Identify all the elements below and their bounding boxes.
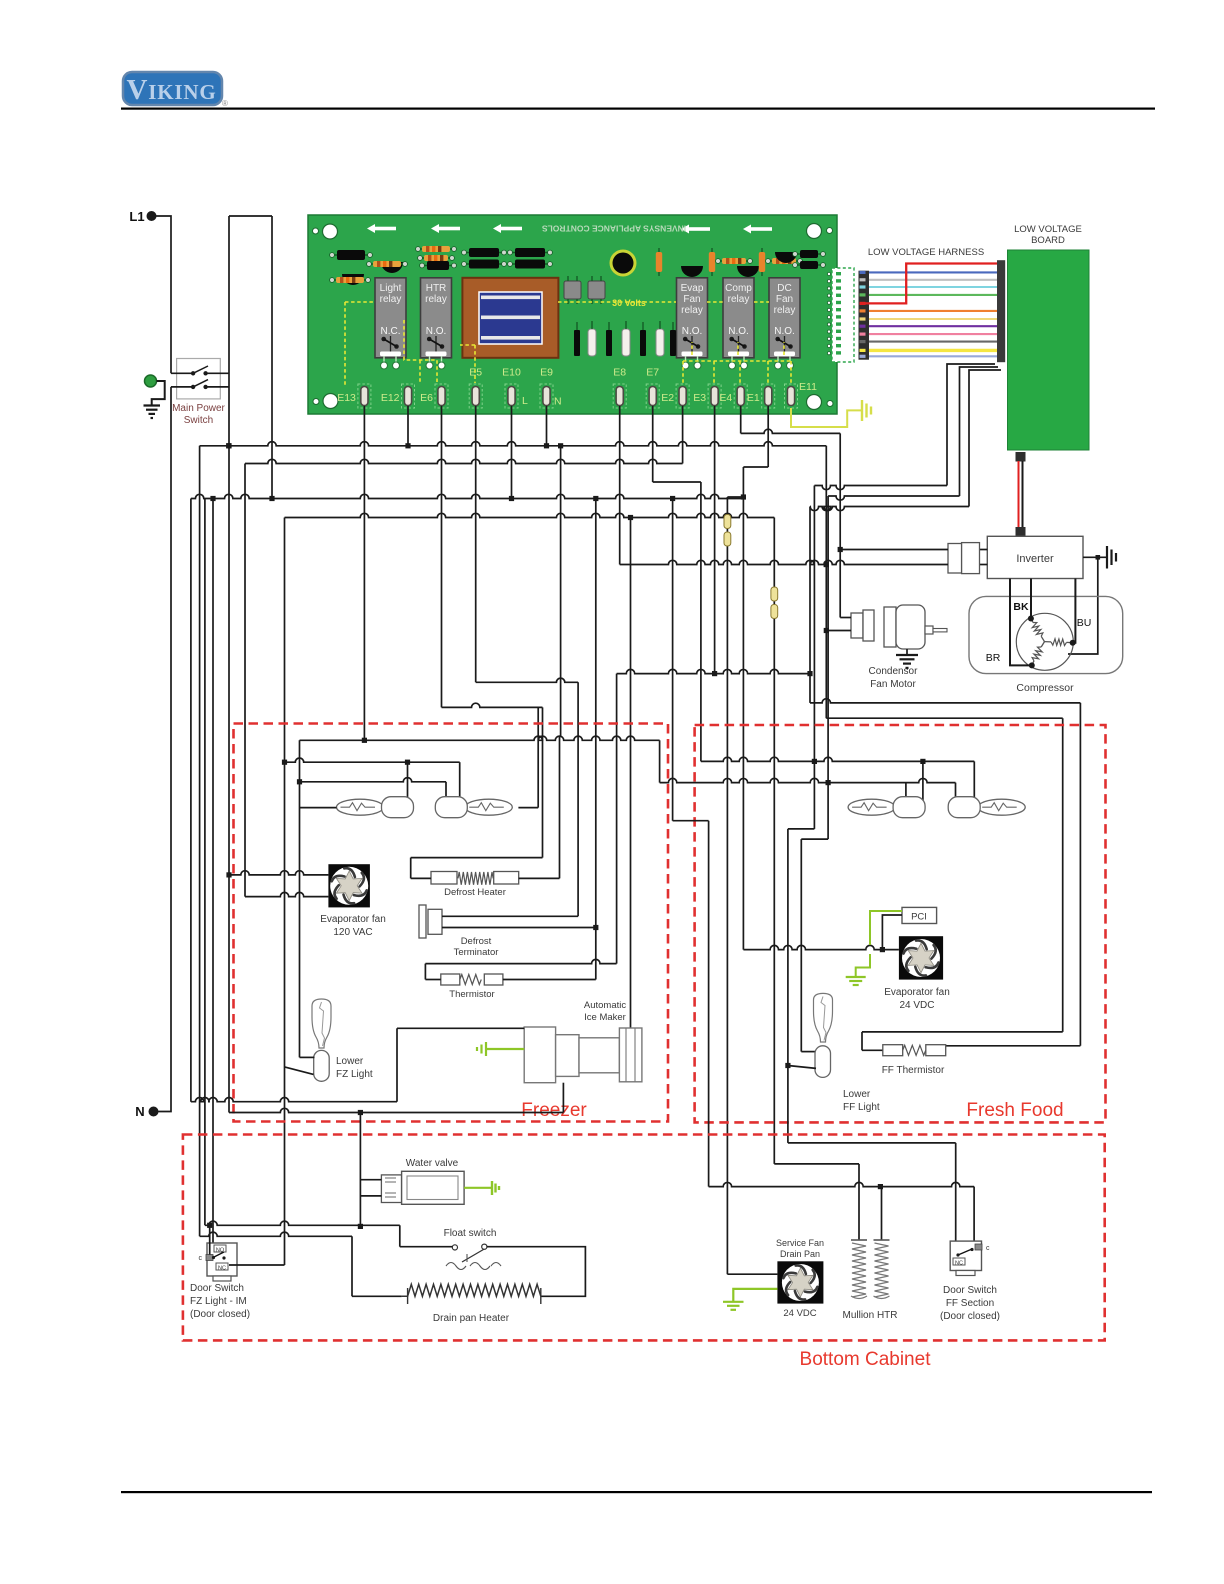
lower FF light diagonal [788, 1066, 816, 1069]
svg-text:BR: BR [986, 652, 1001, 664]
thermistor FZ [441, 974, 503, 985]
PCB capacitor pair 2 [508, 248, 553, 269]
wire fz bulb2 tip drop [537, 707, 539, 807]
svg-text:Lower: Lower [843, 1089, 871, 1100]
svg-text:Door Switch: Door Switch [943, 1285, 997, 1296]
FF bulb1 stubs [906, 761, 923, 800]
label evaporator fan FZ [320, 914, 386, 938]
svg-text:NC: NC [218, 1266, 226, 1272]
label thermistor FZ [449, 989, 494, 1000]
label door switch FZ [190, 1283, 250, 1320]
PCI board [902, 907, 937, 923]
svg-text:Float switch: Float switch [444, 1228, 497, 1239]
PCB edge connector J1 [827, 268, 854, 362]
wire E2 drop [682, 413, 684, 464]
wire mullion right feed [881, 1187, 883, 1240]
svg-text:E1: E1 [747, 392, 760, 404]
wire V229 switched [226, 216, 231, 501]
wire E5 drop [475, 413, 477, 682]
svg-text:®: ® [222, 99, 228, 108]
wire E12 drop [407, 413, 409, 446]
svg-text:E4: E4 [719, 392, 732, 404]
wire3 door switch FF feed [709, 1182, 975, 1248]
harness red wire [862, 264, 997, 304]
freezer left vertical [297, 740, 302, 1057]
svg-text:24 VDC: 24 VDC [783, 1308, 816, 1319]
freezer top wire [300, 736, 660, 782]
svg-text:c: c [986, 1245, 990, 1252]
relay K1 Light [375, 278, 406, 369]
wire E1 jog [743, 413, 768, 950]
bus A branch N2 [560, 446, 562, 736]
label BU [1077, 617, 1092, 629]
low voltage board [1008, 250, 1090, 450]
wire row 1 [205, 1221, 400, 1247]
inverter ground [1083, 546, 1116, 569]
inverter connector P2 [948, 543, 987, 574]
relay K4 Comp [723, 278, 754, 369]
wire mullion left feed [774, 1164, 859, 1240]
svg-text:Inverter: Inverter [1016, 553, 1054, 565]
inverter U2 [987, 536, 1083, 578]
svg-text:LOW VOLTAGE HARNESS: LOW VOLTAGE HARNESS [868, 247, 984, 258]
wire row 2 [200, 1232, 402, 1296]
svg-text:LOW VOLTAGE: LOW VOLTAGE [1014, 224, 1082, 235]
svg-text:N.O.: N.O. [682, 326, 703, 337]
label ice maker [584, 1000, 626, 1023]
defrost terminator [419, 905, 598, 938]
svg-text:Comp: Comp [725, 283, 752, 294]
LV wire 1 [814, 364, 995, 761]
wire E10 drop [511, 413, 513, 499]
label lower FZ light [336, 1056, 373, 1080]
wire BK [1030, 579, 1032, 619]
bus D left drop [284, 518, 286, 1266]
svg-text:HTR: HTR [426, 283, 447, 294]
wire E8 inverter lower feed [620, 413, 948, 567]
svg-text:N.O.: N.O. [728, 326, 749, 337]
svg-text:Evap: Evap [681, 283, 704, 294]
svg-text:E10: E10 [502, 367, 521, 379]
svg-text:Light: Light [380, 283, 402, 294]
svg-text:Freezer: Freezer [521, 1100, 587, 1121]
wire fuse jog [727, 496, 743, 498]
svg-text:Bottom Cabinet: Bottom Cabinet [800, 1349, 932, 1370]
svg-text:relay: relay [728, 294, 750, 305]
ice maker ground green [477, 1042, 524, 1056]
fuse pair F2 [771, 518, 778, 1164]
svg-text:(Door closed): (Door closed) [940, 1311, 1000, 1322]
label Condensor Fan Motor [869, 666, 919, 690]
bus B [245, 459, 683, 463]
label 30 Volts [612, 298, 646, 308]
svg-text:FF Thermistor: FF Thermistor [882, 1065, 945, 1076]
freezer feed 762 [282, 758, 460, 800]
svg-text:N.O.: N.O. [774, 326, 795, 337]
harness connector strip right [997, 260, 1005, 362]
transformer T1 [462, 278, 558, 358]
svg-text:L1: L1 [129, 209, 144, 224]
label Freezer [521, 1100, 587, 1121]
bus C left drop [190, 499, 192, 1102]
power indicator ground [144, 375, 165, 418]
PCB main control board [308, 215, 837, 414]
FF thermistor [883, 1045, 946, 1056]
float switch [446, 1244, 501, 1269]
svg-text:Drain pan Heater: Drain pan Heater [433, 1313, 510, 1324]
wire inverter case to compressor [1068, 555, 1100, 654]
svg-text:(Door closed): (Door closed) [190, 1309, 250, 1320]
wire V204 [204, 499, 206, 1226]
label FF thermistor [882, 1065, 945, 1076]
freezer dashed box [234, 724, 669, 1122]
svg-text:E9: E9 [540, 367, 553, 379]
wire V595 drop [595, 499, 597, 980]
evaporator fan FF [899, 936, 943, 979]
PCB silk text INVENSYS APPLIANCE CONTROLS [542, 224, 687, 234]
PCB yellow trace bus [345, 302, 791, 385]
svg-text:Mullion HTR: Mullion HTR [842, 1310, 897, 1321]
freezer light bulb pair [337, 797, 513, 818]
PCI link [882, 915, 902, 950]
lower FZ light leads [285, 1057, 315, 1074]
Viking logo [123, 72, 228, 108]
automatic ice maker [524, 1027, 642, 1083]
FF green ground wire [846, 911, 902, 985]
water valve [381, 1171, 464, 1204]
wire N to switch [158, 387, 171, 1112]
label Fresh Food [966, 1100, 1063, 1121]
compressor case [969, 596, 1123, 673]
wire FF therm right feed [946, 703, 1081, 1046]
wire BU [1073, 579, 1076, 643]
LV board ground yellow [791, 400, 871, 427]
svg-text:FF Light: FF Light [843, 1102, 880, 1113]
svg-text:Lower: Lower [336, 1056, 364, 1067]
svg-text:E6: E6 [420, 392, 433, 404]
terminal labels L and N [522, 395, 562, 408]
svg-text:Switch: Switch [184, 415, 213, 426]
condenser fan ground [896, 649, 918, 668]
main power switch S1 [171, 359, 229, 427]
fresh food dashed box [695, 725, 1106, 1122]
water valve ground [464, 1181, 499, 1195]
svg-text:Service Fan: Service Fan [776, 1238, 824, 1248]
service fan ground [723, 1289, 777, 1310]
wire inverter upper feed [840, 549, 948, 551]
bus D [285, 513, 775, 520]
LV wire 2 [828, 367, 998, 783]
LV wire 3 [810, 370, 1001, 511]
wire H718 [826, 717, 1062, 719]
PCB small ic pair [564, 276, 605, 304]
svg-text:E2: E2 [661, 392, 674, 404]
wire E7 jog [653, 413, 701, 761]
service fan drain pan [777, 1261, 823, 1303]
svg-text:Condensor: Condensor [869, 666, 919, 677]
condenser fan motor M1 [851, 605, 947, 649]
svg-text:Evaporator fan: Evaporator fan [884, 987, 950, 998]
svg-text:INVENSYS APPLIANCE CONTROLS: INVENSYS APPLIANCE CONTROLS [542, 224, 687, 234]
svg-text:PCI: PCI [911, 912, 927, 923]
water valve feeds [358, 1110, 382, 1229]
wire defrost left drop [542, 707, 544, 857]
bus C switched [191, 494, 746, 501]
label defrost terminator [454, 936, 499, 958]
label 24 VDC [783, 1308, 816, 1319]
relay K5 DC Fan [769, 278, 800, 369]
svg-text:relay: relay [681, 305, 703, 316]
svg-text:Fan Motor: Fan Motor [870, 679, 916, 690]
svg-text:N.C.: N.C. [381, 326, 401, 337]
inverter input connector [1016, 527, 1026, 537]
wire V272 [269, 216, 274, 501]
header rule [121, 108, 1155, 110]
svg-text:N.O.: N.O. [426, 326, 447, 337]
door switch FF [950, 1241, 990, 1275]
svg-text:N: N [135, 1104, 144, 1119]
wire BR [1010, 579, 1032, 666]
svg-text:N: N [554, 396, 562, 408]
node N [135, 1104, 158, 1119]
LV board output connector [1016, 452, 1026, 462]
harness connector strip left [859, 271, 870, 360]
FF light bulb pair [848, 797, 1025, 818]
freezer bottom wire 2 [229, 1108, 563, 1112]
svg-text:Main Power: Main Power [172, 403, 225, 414]
svg-text:Ice Maker: Ice Maker [584, 1012, 626, 1023]
low voltage harness ribbon [860, 271, 998, 358]
evaporator fan FZ [328, 864, 370, 907]
svg-text:BOARD: BOARD [1031, 235, 1065, 246]
label LOW VOLTAGE HARNESS [868, 247, 984, 258]
wire E6 drop [441, 413, 443, 707]
wire E5 corner [476, 678, 578, 682]
FF feed 782 [660, 778, 956, 800]
svg-text:30 Volts: 30 Volts [612, 298, 646, 308]
wire terminator drop [577, 682, 579, 916]
wire H702 [810, 699, 1080, 703]
svg-text:E5: E5 [469, 367, 482, 379]
svg-text:E3: E3 [693, 392, 706, 404]
svg-text:Evaporator fan: Evaporator fan [320, 914, 386, 925]
FF feed 761 [701, 757, 974, 800]
svg-text:Fan: Fan [776, 294, 793, 305]
label Compressor [1016, 682, 1074, 694]
defrost heater R-DH [431, 872, 519, 885]
wire icemaker drop [630, 518, 632, 1029]
wire defrost right drop [560, 736, 561, 878]
wire H673 [617, 669, 810, 673]
bus A right drop [824, 446, 829, 718]
bus A neutral [200, 442, 827, 449]
door switch FZ verticals [210, 1225, 213, 1254]
svg-text:120 VAC: 120 VAC [333, 927, 372, 938]
wire condenser lower pin [826, 630, 851, 632]
svg-text:E8: E8 [613, 367, 626, 379]
label mullion HTR [842, 1310, 897, 1321]
lower FF light [814, 993, 833, 1077]
footer rule [121, 1491, 1152, 1493]
label door switch FF [940, 1285, 1000, 1322]
svg-text:Automatic: Automatic [584, 1000, 626, 1011]
svg-text:NC: NC [955, 1261, 963, 1267]
svg-text:Defrost: Defrost [461, 936, 492, 947]
PCB capacitor pair 1 [462, 248, 507, 269]
terminal stubs [364, 406, 768, 413]
float switch right wire [487, 1247, 586, 1297]
svg-text:Compressor: Compressor [1016, 682, 1074, 694]
PCB silk arrows [367, 224, 772, 234]
PCB component cluster 2 [416, 246, 457, 270]
wire condenser wrap to FF therm left [862, 718, 1063, 1050]
svg-text:Terminator: Terminator [454, 947, 499, 958]
svg-text:c: c [199, 1255, 203, 1262]
wire V213 [212, 499, 214, 1248]
svg-text:L: L [522, 395, 528, 407]
PCB corner screws [313, 224, 834, 410]
svg-text:E11: E11 [799, 381, 817, 393]
bottom cabinet dashed box [183, 1135, 1105, 1341]
svg-text:E12: E12 [381, 392, 400, 404]
svg-text:Fan: Fan [683, 294, 700, 305]
wire thermistor left drop [616, 674, 618, 964]
svg-text:Fresh Food: Fresh Food [966, 1100, 1063, 1121]
svg-text:relay: relay [380, 294, 402, 305]
wire V672 to door switch [673, 499, 709, 1187]
wire L1 to switch [156, 216, 171, 373]
PCB terminals E13 E12 E6 E5 E10 E9 E8 E7 E2 E3 E4 E1 E11 [337, 367, 817, 409]
label drain pan heater [433, 1313, 510, 1324]
label BK [1013, 601, 1029, 613]
lower FZ light [312, 999, 331, 1081]
svg-text:E7: E7 [646, 367, 659, 379]
drain pan heater [402, 1284, 541, 1304]
relay K3 Evap Fan [677, 278, 708, 369]
svg-text:Defrost Heater: Defrost Heater [444, 887, 506, 898]
svg-text:relay: relay [774, 305, 796, 316]
svg-text:E13: E13 [337, 392, 356, 404]
wire E9 drop [546, 413, 548, 446]
freezer bulb1 stub [407, 762, 409, 800]
wire H1142 [788, 1143, 956, 1243]
node L1 [129, 209, 156, 224]
bus B left drop [244, 464, 246, 897]
label water valve [406, 1158, 459, 1169]
PCB component cluster left [330, 250, 408, 285]
wire E13 drop [362, 413, 367, 743]
bus A left drop [199, 446, 201, 1237]
svg-text:FZ Light: FZ Light [336, 1069, 373, 1080]
float switch left wire [400, 1246, 453, 1248]
svg-text:24 VDC: 24 VDC [899, 1000, 934, 1011]
wire E3 drop [712, 413, 717, 676]
svg-text:relay: relay [425, 294, 447, 305]
door switch FZ [199, 1243, 238, 1281]
label defrost heater [444, 887, 506, 898]
label service fan [776, 1238, 824, 1259]
label evaporator fan FF [884, 987, 950, 1011]
PCB toroid [610, 250, 637, 277]
svg-text:Water valve: Water valve [406, 1158, 459, 1169]
label Bottom Cabinet [800, 1349, 932, 1370]
label BR [986, 652, 1001, 664]
svg-text:BU: BU [1077, 617, 1092, 629]
svg-text:FF Section: FF Section [946, 1298, 994, 1309]
wire V229 long [228, 501, 230, 1113]
svg-text:FZ Light - IM: FZ Light - IM [190, 1296, 247, 1307]
evap fan feeds [226, 871, 328, 897]
ice maker bottom lead [562, 1083, 564, 1113]
svg-text:Drain Pan: Drain Pan [780, 1249, 820, 1259]
door switch FZ NC jog [229, 1264, 285, 1266]
wire V810 [807, 507, 812, 703]
relay K2 HTR [421, 278, 452, 369]
mullion heater coils [851, 1240, 890, 1299]
freezer bottom wire 1 [191, 1028, 524, 1101]
svg-text:DC: DC [777, 283, 791, 294]
label LOW VOLTAGE BOARD [1014, 224, 1082, 246]
freezer feed 782 [300, 778, 447, 801]
wire E4 to inverter [741, 413, 851, 618]
red black pair to inverter [1019, 461, 1023, 527]
fuse pair F1 [724, 497, 731, 1274]
thermistor FZ leads [425, 959, 616, 979]
wire service fan feed [727, 1273, 777, 1275]
svg-text:Door Switch: Door Switch [190, 1283, 244, 1294]
freezer bulb tips wire [300, 807, 539, 809]
PCB white capacitors [574, 321, 676, 356]
svg-text:Thermistor: Thermistor [449, 989, 494, 1000]
label lower FF light [843, 1089, 880, 1113]
compressor motor windings [1016, 613, 1075, 670]
wire E6 corner [442, 703, 543, 707]
FF staircase 1 [785, 761, 814, 1143]
PCB component cluster right [656, 248, 826, 277]
wire top link [229, 215, 272, 217]
FF fan feed wire [743, 945, 899, 952]
label float switch [444, 1228, 497, 1239]
FF staircase 2 [801, 783, 828, 1052]
svg-text:BK: BK [1013, 601, 1029, 613]
defrost heater leads [411, 858, 560, 879]
